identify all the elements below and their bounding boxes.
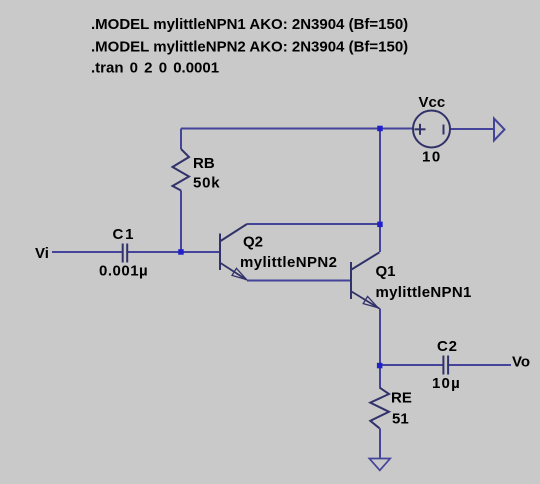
svg-text:.tran 0 2 0 0.0001: .tran 0 2 0 0.0001 xyxy=(91,60,219,77)
svg-text:Vi: Vi xyxy=(35,245,49,262)
svg-text:Q2: Q2 xyxy=(243,234,263,251)
svg-text:0.001µ: 0.001µ xyxy=(99,263,148,280)
svg-text:C1: C1 xyxy=(113,226,136,243)
svg-text:.MODEL mylittleNPN1 AKO: 2N390: .MODEL mylittleNPN1 AKO: 2N3904 (Bf=150) xyxy=(91,16,408,33)
svg-text:mylittleNPN2: mylittleNPN2 xyxy=(240,254,337,271)
svg-text:Vo: Vo xyxy=(512,354,530,371)
svg-text:51: 51 xyxy=(392,411,409,428)
svg-text:C2: C2 xyxy=(437,338,458,355)
svg-text:50k: 50k xyxy=(193,175,220,192)
svg-text:10: 10 xyxy=(422,149,442,166)
svg-text:RE: RE xyxy=(391,390,412,407)
svg-text:mylittleNPN1: mylittleNPN1 xyxy=(376,284,472,301)
svg-text:10µ: 10µ xyxy=(432,375,461,392)
svg-text:RB: RB xyxy=(193,155,215,172)
svg-text:Vcc: Vcc xyxy=(419,94,446,111)
svg-text:Q1: Q1 xyxy=(376,263,396,280)
svg-text:.MODEL mylittleNPN2 AKO: 2N390: .MODEL mylittleNPN2 AKO: 2N3904 (Bf=150) xyxy=(91,39,408,56)
